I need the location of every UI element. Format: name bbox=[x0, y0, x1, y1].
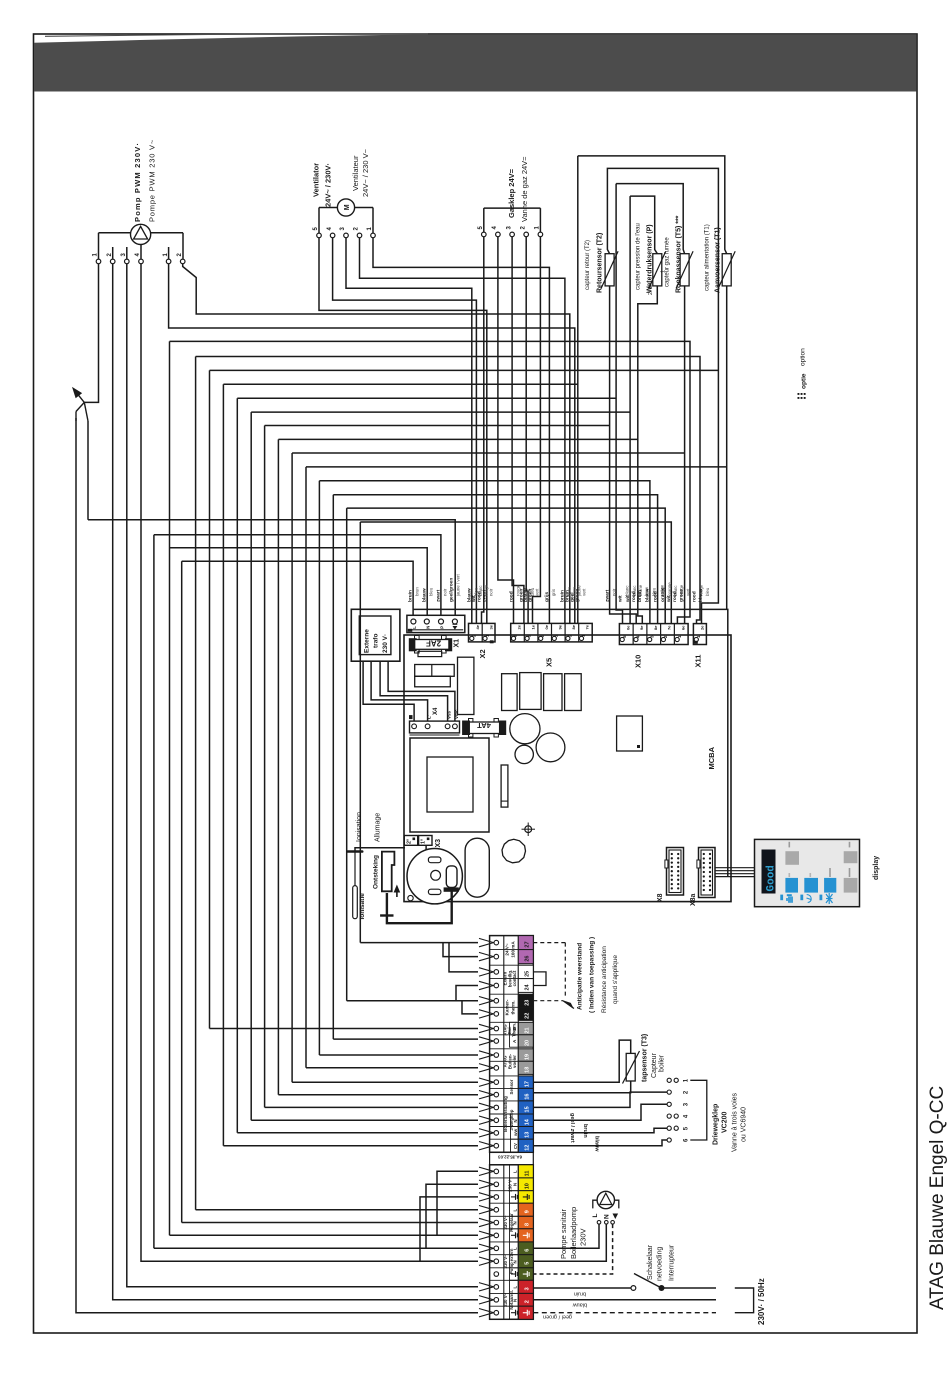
header scan line bbox=[45, 34, 428, 36]
wire P bottom to X10 bbox=[638, 286, 658, 624]
transformer TR1 Externe trafo bbox=[351, 609, 400, 661]
anticipatie arrow bbox=[563, 1001, 573, 1008]
wire pump T3 to pin3 bbox=[127, 264, 478, 1287]
svg-text:16: 16 bbox=[525, 1094, 531, 1100]
svg-text:X4: X4 bbox=[433, 707, 439, 715]
svg-text:Vss: Vss bbox=[447, 710, 452, 719]
svg-text:L: L bbox=[592, 1214, 599, 1218]
svg-text:230V· / 50Hz: 230V· / 50Hz bbox=[757, 1278, 766, 1325]
svg-text:oranje: oranje bbox=[660, 587, 666, 602]
svg-text:zwart: zwart bbox=[435, 589, 441, 602]
svg-text:3: 3 bbox=[648, 286, 654, 289]
arrow up at cap bbox=[394, 885, 401, 893]
display blue buttons bbox=[785, 878, 798, 893]
svg-text:L': L' bbox=[427, 715, 432, 719]
svg-text:blauw: blauw bbox=[594, 1136, 600, 1152]
svg-text:rood: rood bbox=[652, 591, 658, 602]
circle component bbox=[502, 839, 526, 863]
svg-text:X11: X11 bbox=[694, 655, 703, 668]
svg-text:geel / groen: geel / groen bbox=[543, 1314, 572, 1320]
svg-text:( Indien van toepassing ): ( Indien van toepassing ) bbox=[589, 937, 596, 1013]
svg-text:ou VC6940: ou VC6940 bbox=[741, 1107, 748, 1142]
wire pump bracket bbox=[99, 232, 131, 234]
svg-text:Ventilateur: Ventilateur bbox=[351, 155, 360, 191]
wire pump T4 to pin5 bbox=[141, 264, 478, 1261]
svg-text:noir: noir bbox=[611, 588, 616, 596]
svg-text:Résistance anticipation: Résistance anticipation bbox=[601, 946, 608, 1013]
wire sensor loop3 T5 bbox=[616, 184, 685, 254]
connector X2 bbox=[469, 623, 496, 642]
wire ventilator bracket bbox=[319, 207, 337, 209]
wire pump earth dashed to strip4 bbox=[533, 1224, 612, 1274]
svg-text:8: 8 bbox=[525, 1223, 531, 1226]
svg-text:blauw: blauw bbox=[573, 1302, 587, 1308]
svg-text:L: L bbox=[513, 1247, 518, 1250]
svg-text:7e: 7e bbox=[667, 625, 672, 630]
svg-text:6: 6 bbox=[525, 1249, 531, 1252]
thin rect component bbox=[501, 765, 508, 807]
svg-text:Pompe PWM 230 V~: Pompe PWM 230 V~ bbox=[148, 139, 157, 222]
svg-text:vert: vert bbox=[685, 588, 690, 596]
svg-text:X1: X1 bbox=[454, 639, 461, 648]
IC U2 rect bbox=[617, 716, 643, 751]
svg-text:Driewegklep: Driewegklep bbox=[713, 1104, 720, 1145]
svg-text:13: 13 bbox=[525, 1132, 531, 1138]
svg-text:quand s'applique: quand s'applique bbox=[612, 955, 619, 1004]
svg-text:display: display bbox=[873, 856, 880, 880]
svg-text:Externe: Externe bbox=[364, 629, 371, 653]
mains bracket 230V bbox=[735, 1288, 754, 1313]
wire trafo to X4 bbox=[363, 661, 414, 721]
ionisation probe outline bbox=[353, 886, 358, 919]
svg-text:jaune / vert: jaune / vert bbox=[456, 573, 461, 597]
wires strip to driewegklep bbox=[533, 1092, 667, 1107]
svg-text:vert: vert bbox=[581, 588, 586, 596]
svg-text:6A.35.22.03: 6A.35.22.03 bbox=[498, 1155, 522, 1160]
svg-text:N: N bbox=[513, 1260, 518, 1263]
svg-text:geel/groen: geel/groen bbox=[448, 578, 454, 602]
wire earth down to strip pin1 bbox=[76, 418, 478, 1313]
svg-text:trafo: trafo bbox=[373, 634, 380, 648]
connector X11 bbox=[693, 624, 706, 645]
svg-text:230 V~: 230 V~ bbox=[503, 1254, 508, 1268]
svg-text:bruin: bruin bbox=[574, 1291, 586, 1297]
svg-text:Vanne de gaz 24V=: Vanne de gaz 24V= bbox=[520, 156, 529, 222]
svg-text:noir: noir bbox=[489, 588, 494, 596]
svg-text:2AF: 2AF bbox=[426, 638, 441, 647]
svg-text:2e: 2e bbox=[517, 624, 522, 629]
svg-text:Ventilator: Ventilator bbox=[312, 163, 321, 197]
display unit bbox=[755, 839, 860, 906]
svg-text:3e: 3e bbox=[489, 624, 494, 629]
svg-text:tapsensor (T3): tapsensor (T3) bbox=[642, 1034, 649, 1082]
svg-text:230V: 230V bbox=[579, 1228, 588, 1246]
svg-text:8e: 8e bbox=[571, 624, 576, 629]
wire sensor loopW P bbox=[630, 196, 657, 254]
svg-text:bruin: bruin bbox=[408, 590, 414, 602]
svg-text:X8a: X8a bbox=[690, 893, 697, 906]
trafo rects on board bbox=[415, 665, 455, 677]
svg-text:6e: 6e bbox=[680, 625, 685, 630]
svg-text:2: 2 bbox=[525, 1300, 531, 1303]
svg-text:capteur retour (T2): capteur retour (T2) bbox=[585, 240, 591, 290]
svg-text:Retoursensor (T2): Retoursensor (T2) bbox=[597, 233, 604, 293]
wire chevrons into strip pins bbox=[479, 938, 494, 942]
pump terminals 1 2 3 4 / 1 2 bbox=[96, 259, 101, 264]
svg-text:zwart: zwart bbox=[604, 589, 610, 602]
svg-text:0e: 0e bbox=[544, 624, 549, 629]
svg-text:Ionisation: Ionisation bbox=[356, 812, 363, 842]
svg-text:bruin: bruin bbox=[582, 1124, 588, 1138]
connector X3 bbox=[404, 836, 417, 846]
svg-text:P: P bbox=[440, 626, 445, 629]
svg-text:capteur pression de l'eau: capteur pression de l'eau bbox=[636, 223, 642, 290]
svg-text:therm.: therm. bbox=[511, 1000, 516, 1014]
wire upper band to X10 bbox=[319, 481, 650, 624]
wire ignition HT lead thick bbox=[387, 892, 452, 924]
svg-text:23: 23 bbox=[525, 1000, 531, 1006]
svg-text:blauw: blauw bbox=[698, 588, 704, 602]
wire pump N to strip5 bbox=[533, 1224, 606, 1261]
svg-text:N: N bbox=[604, 1214, 611, 1219]
svg-text:9: 9 bbox=[525, 1210, 531, 1213]
display gray buttons bbox=[785, 851, 799, 865]
svg-text:22: 22 bbox=[525, 1013, 531, 1019]
svg-text:14: 14 bbox=[525, 1118, 531, 1125]
wire band to X11 bbox=[196, 357, 700, 624]
svg-text:230 V~: 230 V~ bbox=[503, 1292, 508, 1306]
fuse F1 2AF bbox=[415, 636, 420, 641]
connector X8a bbox=[699, 848, 716, 898]
capacitor circles bbox=[510, 714, 540, 744]
svg-text:ATAG Blauwe Engel Q-CC: ATAG Blauwe Engel Q-CC bbox=[927, 1086, 948, 1310]
svg-text:rood: rood bbox=[672, 591, 678, 602]
svg-text:21: 21 bbox=[525, 1027, 531, 1033]
svg-text:L: L bbox=[513, 1286, 518, 1289]
svg-text:X2: X2 bbox=[478, 649, 487, 658]
svg-text:wit: wit bbox=[617, 595, 623, 603]
svg-text:Vanne à trois voies: Vanne à trois voies bbox=[732, 1092, 739, 1152]
svg-text:4e: 4e bbox=[475, 624, 480, 629]
fuse F2 4AT bbox=[469, 719, 473, 724]
wire mains N bbox=[533, 1299, 716, 1301]
svg-text:brun: brun bbox=[415, 587, 420, 596]
svg-text:bleu: bleu bbox=[705, 587, 710, 596]
svg-text:24V~ / 230V·: 24V~ / 230V· bbox=[324, 163, 333, 207]
svg-text:Boilerlaadpomp: Boilerlaadpomp bbox=[569, 1207, 578, 1259]
svg-text:noir: noir bbox=[442, 588, 447, 596]
wire ventilator T5 to X2 bbox=[319, 238, 487, 624]
ground symbol arrow bbox=[84, 264, 98, 403]
svg-text:Vmc: Vmc bbox=[454, 709, 459, 719]
svg-text:blanc: blanc bbox=[624, 585, 629, 596]
svg-text:7e: 7e bbox=[585, 624, 590, 629]
svg-text:8e: 8e bbox=[653, 625, 658, 630]
svg-text:9e: 9e bbox=[558, 624, 563, 629]
svg-text:Allumage: Allumage bbox=[375, 813, 382, 842]
svg-text:N: N bbox=[513, 1119, 518, 1122]
svg-text:optie: optie bbox=[801, 373, 808, 389]
svg-text:1e: 1e bbox=[530, 624, 535, 629]
wire X11 right horizontal down right side bbox=[413, 609, 728, 877]
svg-text:Anticipatie weerstand: Anticipatie weerstand bbox=[577, 943, 584, 1010]
wire ventilator T4 to X2 bbox=[333, 238, 477, 624]
svg-text:4AT: 4AT bbox=[477, 721, 491, 730]
svg-text:rood: rood bbox=[691, 591, 697, 602]
electrode spark cross bbox=[380, 914, 393, 916]
svg-text:blauw: blauw bbox=[645, 588, 651, 602]
svg-text:Interrupteur: Interrupteur bbox=[669, 1244, 676, 1281]
svg-text:X10: X10 bbox=[634, 655, 643, 668]
svg-text:230 V·: 230 V· bbox=[382, 634, 389, 653]
svg-text:9e: 9e bbox=[639, 625, 644, 630]
svg-text:bleu: bleu bbox=[428, 587, 433, 596]
wire ventilator T2 to X5 bbox=[360, 238, 565, 624]
display small marks bbox=[789, 842, 791, 848]
svg-text:Boileraansluiting: Boileraansluiting bbox=[503, 1096, 508, 1132]
wire T-bar to probe bbox=[354, 852, 356, 886]
display icons bbox=[780, 895, 783, 901]
wire sensor loop1 T1 bbox=[578, 156, 727, 254]
svg-text:WW: WW bbox=[514, 1128, 518, 1136]
wire mains PE dashed bbox=[533, 1312, 716, 1314]
jumper loop 24-25 bbox=[533, 972, 546, 986]
display LCD bbox=[762, 850, 776, 894]
svg-text:orange: orange bbox=[667, 582, 672, 596]
connector X4 bbox=[410, 721, 460, 733]
svg-text:2e: 2e bbox=[700, 625, 705, 630]
svg-text:capteur gaz fumée: capteur gaz fumée bbox=[665, 237, 671, 287]
board MCBA outline bbox=[404, 635, 731, 902]
switch S1 schakelaar bbox=[533, 1287, 631, 1289]
svg-text:zwart: zwart bbox=[482, 589, 488, 602]
svg-text:Good: Good bbox=[766, 865, 778, 891]
svg-text:11: 11 bbox=[525, 1171, 531, 1177]
svg-text:geel / zwart: geel / zwart bbox=[569, 1113, 575, 1143]
wire T1 bottom down right side bbox=[726, 286, 728, 610]
wire X8a to display bbox=[715, 867, 755, 869]
svg-text:Pomp PWM 230V·: Pomp PWM 230V· bbox=[133, 142, 142, 222]
svg-text:M: M bbox=[344, 204, 351, 210]
connector X1 bbox=[407, 615, 465, 632]
svg-text:Ionisatie: Ionisatie bbox=[359, 893, 366, 920]
svg-text:netvoeding: netvoeding bbox=[657, 1247, 664, 1281]
svg-text:L: L bbox=[513, 1209, 518, 1212]
svg-text:0e: 0e bbox=[625, 625, 630, 630]
wire loop1 left down to X5 bbox=[577, 156, 579, 624]
svg-text:230 V~: 230 V~ bbox=[503, 1215, 508, 1229]
wire band top to X10 c5 bbox=[170, 341, 691, 623]
ventilator terminals 5 4 3 2 1 bbox=[317, 233, 322, 238]
connector X8 bbox=[667, 848, 684, 896]
svg-text:18: 18 bbox=[525, 1067, 531, 1073]
wire ventilator T1 to X5 bbox=[373, 238, 549, 624]
svg-text:groen: groen bbox=[678, 589, 684, 602]
svg-text:Pompe sanitair: Pompe sanitair bbox=[559, 1208, 568, 1259]
wire pump T2b to X5 bbox=[183, 264, 570, 624]
wire electrode to X3 bbox=[355, 848, 405, 849]
wire gasklep T5 to X2 bbox=[482, 237, 484, 624]
svg-text:grijs: grijs bbox=[544, 592, 550, 602]
svg-text:gris: gris bbox=[551, 588, 556, 596]
wire X3 to ignition bbox=[425, 845, 427, 850]
svg-text:Kamer-: Kamer- bbox=[505, 999, 510, 1015]
ignition assembly circle bbox=[407, 849, 462, 904]
svg-text:wit: wit bbox=[625, 595, 631, 603]
relay K1-K4 rects bbox=[502, 674, 517, 711]
header bar bbox=[34, 34, 917, 91]
wire pump T2 to pin2 bbox=[113, 264, 478, 1300]
sensor T3 tapsensor bbox=[533, 1040, 630, 1082]
terminal strip X6 bbox=[490, 936, 534, 1153]
svg-text:12: 12 bbox=[525, 1145, 531, 1151]
svg-text:17: 17 bbox=[525, 1081, 531, 1087]
svg-text:100 mA: 100 mA bbox=[511, 941, 516, 958]
wire band to X1 pin2 bbox=[170, 548, 428, 616]
wire ventilator T3 to X2 bbox=[346, 238, 472, 624]
wire anticipatie dashed bbox=[533, 942, 565, 944]
connector X5 bbox=[511, 623, 593, 642]
svg-text:vert: vert bbox=[534, 588, 539, 596]
gasklep terminals 5 4 3 2 1 bbox=[482, 232, 487, 237]
svg-text:option: option bbox=[800, 348, 807, 366]
svg-text:Sensor: Sensor bbox=[509, 1079, 514, 1094]
wire staircase bottoms to strip pins bbox=[170, 1234, 479, 1236]
svg-text:27: 27 bbox=[525, 941, 531, 947]
oval component bbox=[465, 838, 489, 897]
transformer T2 big square bbox=[410, 738, 489, 832]
svg-text:24 V~: 24 V~ bbox=[505, 943, 510, 955]
svg-text:Ontsteking: Ontsteking bbox=[373, 855, 380, 889]
strip row separators left columns bbox=[490, 935, 519, 937]
svg-text:19: 19 bbox=[525, 1054, 531, 1060]
svg-text:Schakelaar: Schakelaar bbox=[647, 1244, 654, 1280]
svg-text:blauw: blauw bbox=[421, 588, 427, 602]
svg-text:L: L bbox=[513, 1170, 518, 1173]
svg-text:N: N bbox=[425, 626, 430, 629]
svg-text:X5: X5 bbox=[545, 658, 554, 667]
wire T5 bottom to X10 bbox=[684, 286, 686, 624]
svg-text:boiler: boiler bbox=[659, 1054, 666, 1072]
wire gasklep T2 to X5 bbox=[526, 237, 528, 624]
svg-text:groen: groen bbox=[574, 589, 580, 602]
svg-text:MCBA: MCBA bbox=[707, 746, 716, 769]
svg-text:N: N bbox=[513, 1299, 518, 1302]
svg-text:rood: rood bbox=[508, 591, 514, 602]
svg-text:1º: 1º bbox=[421, 839, 427, 844]
svg-text:capteur alimentation (T1): capteur alimentation (T1) bbox=[705, 224, 711, 291]
svg-text:N: N bbox=[513, 1183, 518, 1186]
svg-text:rood: rood bbox=[631, 591, 637, 602]
svg-text:24: 24 bbox=[525, 983, 531, 990]
wire band to X1 pin1 bbox=[182, 561, 413, 615]
svg-text:2: 2 bbox=[648, 292, 654, 295]
tall rect component bbox=[458, 657, 474, 714]
wire gasklep T1 to X5 bbox=[533, 237, 541, 624]
svg-text:2º: 2º bbox=[407, 839, 413, 844]
wire driewegklep bracket bbox=[690, 1080, 707, 1140]
wire pump L to strip6 bbox=[533, 1224, 599, 1248]
wire jogs near strip bbox=[443, 943, 478, 957]
valve Driewegklep VC200 bbox=[667, 1078, 671, 1082]
electrode ionisation T-bar bbox=[348, 850, 362, 853]
svg-text:contact: contact bbox=[512, 970, 517, 986]
wire band to X1 pin3 bbox=[154, 535, 441, 616]
wire T2 bottom to X10 bbox=[610, 286, 637, 624]
wire earth long horizontal to X1 pin4 bbox=[88, 520, 455, 616]
wire sensor loop2 T2 bbox=[607, 168, 718, 623]
svg-text:25: 25 bbox=[525, 971, 531, 977]
crosshair mount bbox=[525, 826, 532, 833]
svg-text:N: N bbox=[513, 1221, 518, 1224]
svg-text:5: 5 bbox=[525, 1262, 531, 1265]
connector X10 bbox=[619, 624, 688, 645]
svg-text:voeler: voeler bbox=[512, 1055, 517, 1068]
wire gasklep T4 to X5 bbox=[498, 237, 514, 624]
ignition cap stepped shape bbox=[382, 852, 395, 892]
svg-text:CV: CV bbox=[513, 1143, 518, 1149]
wire gasklep T3 to X5 bbox=[512, 237, 524, 624]
svg-text:Capteur: Capteur bbox=[651, 1052, 658, 1078]
svg-text:3: 3 bbox=[525, 1287, 531, 1290]
svg-text:VC200: VC200 bbox=[722, 1111, 729, 1133]
svg-text:24V~ / 230 V~: 24V~ / 230 V~ bbox=[361, 148, 370, 197]
svg-text:X3: X3 bbox=[435, 839, 442, 848]
wire pump T1b to X5 bbox=[169, 264, 575, 624]
note optie option bbox=[798, 393, 800, 395]
svg-text:26: 26 bbox=[525, 956, 531, 962]
svg-text:bruin: bruin bbox=[637, 590, 643, 602]
svg-text:wit: wit bbox=[666, 595, 672, 603]
svg-text:10: 10 bbox=[525, 1183, 531, 1189]
svg-text:20: 20 bbox=[525, 1040, 531, 1046]
wire upper band to sensors bbox=[223, 383, 577, 385]
wire gasklep bracket bbox=[484, 207, 541, 209]
svg-text:15: 15 bbox=[525, 1106, 531, 1112]
svg-text:groen: groen bbox=[527, 589, 533, 602]
svg-text:X8: X8 bbox=[657, 893, 664, 902]
board mounting hole bbox=[408, 895, 413, 900]
svg-text:rood: rood bbox=[476, 591, 482, 602]
wire staircase bundle upper-left to strip bbox=[169, 341, 171, 1235]
svg-text:Gasklep 24V=: Gasklep 24V= bbox=[507, 168, 516, 218]
svg-text:L: L bbox=[412, 626, 417, 629]
svg-text:wit: wit bbox=[471, 595, 477, 603]
